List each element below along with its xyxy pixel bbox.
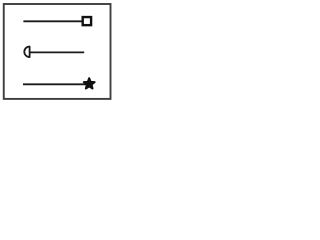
wire 3 (bottom line)	[23, 83, 86, 85]
wire 1 (top line)	[23, 20, 83, 22]
background	[0, 0, 128, 113]
marker M2: half-disc terminal	[24, 47, 29, 58]
marker M1: open square terminal	[83, 17, 91, 25]
frame	[4, 4, 111, 99]
wire 2 (middle line)	[30, 51, 85, 53]
marker M3: filled star terminal	[84, 78, 95, 88]
